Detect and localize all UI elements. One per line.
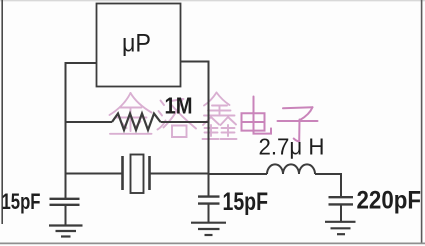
svg-text:μP: μP — [122, 30, 151, 58]
svg-text:2.7μ H: 2.7μ H — [259, 134, 325, 160]
svg-text:15pF: 15pF — [223, 188, 269, 216]
svg-text:15pF: 15pF — [2, 189, 41, 214]
svg-text:1M: 1M — [165, 93, 193, 119]
svg-text:220pF: 220pF — [357, 187, 422, 215]
